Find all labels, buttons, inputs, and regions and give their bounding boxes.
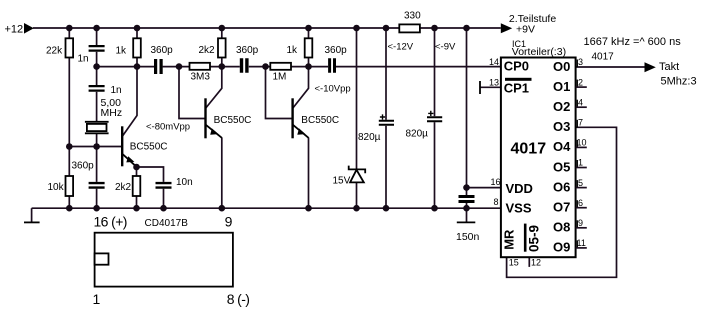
svg-text:O8: O8 [553, 220, 570, 235]
svg-text:360p: 360p [325, 45, 348, 56]
pin 11 stub O9 [576, 247, 587, 249]
svg-text:360p: 360p [151, 45, 174, 56]
op-amp IC1 4017 box [501, 58, 576, 258]
pin 2 tick O1 [576, 80, 578, 88]
wire T1 base row [69, 146, 122, 148]
pin 9 tick O8 [576, 220, 578, 228]
junction T1 base row / 22k-10k [66, 143, 73, 150]
wire 1k2 column to node [308, 58, 310, 67]
transistor Q3 BC550C [293, 98, 309, 138]
wire O0 output to Takt [576, 66, 645, 68]
capacitor 360p (T1 base to gnd) [89, 182, 105, 189]
wire signal row seg cap360p2 to 1M [249, 66, 270, 68]
svg-text:MHz: MHz [101, 107, 123, 119]
svg-text:05-9: 05-9 [526, 225, 541, 252]
pin 1 tick O5 [576, 160, 578, 168]
svg-text:O6: O6 [553, 179, 570, 194]
svg-text:Vorteiler(:3): Vorteiler(:3) [512, 46, 566, 58]
wire 10k column bottom [68, 196, 70, 208]
node CP1 terminator bar [479, 81, 481, 94]
wire T1 emitter down 2k2 [136, 167, 138, 176]
node VDD junction [463, 184, 470, 191]
junction ground rail / T2 emitter [219, 205, 226, 212]
pin 10 tick O4 [576, 140, 578, 148]
wire 150n to rail [466, 203, 468, 208]
pin 6 stub O7 [576, 207, 587, 209]
svg-text:1n: 1n [78, 54, 89, 65]
junction signal row / T2 base node [176, 63, 183, 70]
svg-text:1M: 1M [273, 72, 287, 83]
wire c1n2 to crystal [96, 92, 98, 121]
junction ground rail / T3 emitter [305, 205, 312, 212]
svg-text:2k2: 2k2 [199, 45, 216, 56]
node CP1 overbar [505, 78, 532, 81]
svg-text:9: 9 [225, 214, 233, 230]
svg-text:O5: O5 [553, 159, 570, 174]
wire crystal to base row [96, 134, 98, 147]
wire 150n ground drop [466, 208, 468, 222]
wire 820u2 column top [434, 28, 436, 116]
wire T3 collector [293, 67, 309, 108]
svg-text:<-10Vpp: <-10Vpp [315, 84, 351, 95]
svg-text:360p: 360p [236, 45, 259, 56]
pin 5 tick O6 [576, 180, 578, 188]
capacitor 360p (coupling 1-2) [154, 59, 163, 74]
resistor 330 (supply) [399, 24, 420, 32]
junction signal row / T3 base node [262, 63, 269, 70]
pin 4 tick O2 [576, 100, 578, 108]
svg-text:10k: 10k [48, 182, 65, 193]
svg-text:4017: 4017 [511, 141, 547, 158]
wire c360p4 to rail [96, 189, 98, 209]
svg-text:O3: O3 [553, 119, 570, 134]
junction top rail / 2k2 stage2 [219, 25, 226, 32]
svg-text:3M3: 3M3 [191, 72, 211, 83]
junction top rail / VDD column [463, 25, 470, 32]
IC package pin1 notch [95, 253, 109, 264]
svg-text:11: 11 [577, 238, 586, 248]
wire c1n1 top [96, 28, 98, 45]
pin 10 stub O4 [576, 146, 587, 148]
pin 9 stub O8 [576, 227, 587, 229]
svg-text:1667 kHz =^ 600 ns: 1667 kHz =^ 600 ns [584, 36, 682, 48]
wire signal row seg 3M3 to cap360p2 [210, 66, 240, 68]
wire 2k2a column to node [221, 58, 223, 67]
node O5-9 overbar (rotated) [524, 224, 527, 252]
wire bottom ground rail [32, 207, 501, 209]
svg-text:1: 1 [93, 291, 101, 307]
capacitor 1n (lower) [89, 85, 105, 92]
junction ground rail / 360p bypass [93, 205, 100, 212]
junction top rail / zener column [353, 25, 360, 32]
ground [24, 221, 40, 223]
svg-text:7: 7 [578, 118, 583, 128]
wire T2 base feed [179, 67, 206, 119]
wire 820u2 column bottom [434, 122, 436, 208]
wire T1 emitter junction right to 10n [137, 167, 164, 182]
junction ground rail / 820u2 [431, 205, 438, 212]
wire CP1 stub [480, 86, 501, 88]
wire 1k1 column bottom to node [136, 58, 138, 67]
port 2.Teilstufe +9V arrow [501, 23, 512, 33]
junction top rail / 1n column [93, 25, 100, 32]
svg-text:1k: 1k [116, 46, 128, 57]
resistor 1k (stage3 collector) [305, 38, 313, 57]
junction signal row / T1 collector node [134, 63, 141, 70]
junction ground rail / 150n [463, 205, 470, 212]
pin 11 tick O9 [576, 240, 578, 248]
capacitor 10n (emitter bypass) [156, 182, 172, 189]
wire VDD column [466, 28, 468, 195]
svg-text:820µ: 820µ [406, 128, 429, 139]
svg-text:14: 14 [489, 57, 499, 67]
port Takt arrow [645, 62, 656, 72]
pin 1 stub O5 [576, 167, 587, 169]
wire 1k1 column top [136, 28, 138, 38]
svg-text:2k2: 2k2 [115, 182, 132, 193]
resistor 1k (stage1) [133, 38, 141, 57]
svg-text:820µ: 820µ [358, 132, 381, 143]
svg-text:1n: 1n [111, 85, 122, 96]
svg-text:5Mhz:3: 5Mhz:3 [661, 75, 697, 87]
wire zener column top [356, 28, 358, 169]
wire O3 feedback to MR [507, 127, 617, 277]
wire pin12 stub [528, 257, 530, 267]
svg-text:BC550C: BC550C [130, 141, 168, 152]
capacitor 1n (upper) [89, 45, 105, 52]
svg-text:10: 10 [577, 138, 587, 148]
svg-text:2: 2 [578, 77, 583, 87]
svg-text:15V: 15V [333, 175, 351, 186]
junction signal row / T3 collector node [305, 63, 312, 70]
svg-text:Takt: Takt [659, 61, 679, 73]
wire 22k column bottom [68, 58, 70, 147]
capacitor 360p (coupling 2-3) [240, 58, 249, 72]
resistor 1M [270, 63, 291, 70]
svg-text:BC550C: BC550C [301, 115, 339, 126]
svg-text:MR: MR [502, 229, 517, 250]
junction signal row / T2 collector node [219, 63, 226, 70]
junction top rail / 1k stage1 [134, 25, 141, 32]
svg-text:4017: 4017 [592, 52, 615, 63]
svg-text:CP1: CP1 [504, 81, 529, 96]
svg-text:3: 3 [578, 57, 583, 67]
svg-text:<-80mVpp: <-80mVpp [146, 122, 190, 133]
svg-text:8 (-): 8 (-) [227, 291, 250, 307]
svg-text:+9V: +9V [516, 23, 535, 35]
wire T3 base feed [266, 67, 293, 119]
svg-text:13: 13 [489, 77, 499, 87]
junction top rail / 820u1 column [383, 25, 390, 32]
svg-text:O2: O2 [553, 99, 570, 114]
wire signal row seg cap360p1 to 3M3 [163, 66, 190, 68]
wire 820u1 column top [385, 28, 387, 120]
transistor Q2 BC550C [206, 98, 222, 138]
wire 22k column top [68, 28, 70, 38]
wire T1 collector [123, 67, 138, 136]
junction ground rail / 2k2 emitter [133, 205, 140, 212]
resistor 3M3 [190, 63, 211, 70]
junction top rail / 22k [66, 25, 73, 32]
svg-text:VDD: VDD [506, 181, 533, 196]
resistor 22k [66, 38, 74, 57]
wire VDD to IC [467, 187, 501, 189]
diode zener 15V [349, 166, 366, 183]
svg-text:O1: O1 [553, 79, 570, 94]
port +12 arrow [24, 23, 34, 34]
ground [457, 221, 476, 223]
IC package DIP16 outline [95, 233, 233, 287]
svg-text:16: 16 [491, 177, 501, 187]
wire 10n to rail [163, 189, 165, 209]
svg-text:CP0: CP0 [504, 59, 529, 74]
wire top supply rail right segment [420, 27, 501, 29]
svg-text:+12: +12 [5, 24, 24, 36]
svg-text:O0: O0 [553, 59, 570, 74]
wire signal row seg 1M to cap360p3 [291, 66, 328, 68]
svg-text:6: 6 [578, 198, 583, 208]
svg-text:150n: 150n [456, 231, 480, 243]
wire 1k2 column top [308, 28, 310, 38]
resistor 2k2 (stage2 collector) [218, 38, 226, 57]
node T1 emitter junction [133, 164, 140, 171]
junction ground rail / 10k [66, 205, 73, 212]
svg-text:22k: 22k [46, 46, 63, 57]
wire 10k column top [68, 147, 70, 177]
svg-text:VSS: VSS [506, 200, 532, 215]
capacitor 150n [459, 195, 475, 203]
junction signal row / crystal column [93, 63, 100, 70]
svg-text:5: 5 [578, 178, 583, 188]
capacitor 820u (second electrolytic) [427, 111, 442, 122]
wire T2 collector [206, 67, 222, 108]
pin 2 stub O1 [576, 86, 587, 88]
capacitor 820u (first electrolytic) [379, 114, 394, 125]
wire 2k2b to rail [136, 196, 138, 208]
junction top rail / 1k stage3 [305, 25, 312, 32]
pin 3 tick O0 [576, 60, 578, 68]
wire zener column bottom [356, 182, 358, 208]
wire base row to c360p4 [96, 147, 98, 182]
wire c1n1 to node [96, 52, 98, 67]
junction ground rail / zener [353, 205, 360, 212]
svg-text:12: 12 [531, 258, 541, 268]
wire left ground drop [31, 208, 33, 222]
crystal 5.00 MHz [85, 122, 109, 134]
svg-text:360p: 360p [72, 161, 95, 172]
svg-text:8: 8 [494, 197, 499, 207]
transistor Q1 BC550C [122, 126, 136, 167]
junction ground rail / 10n [160, 205, 167, 212]
junction T1 base row / crystal [93, 143, 100, 150]
junction top rail / 820u2 column [431, 25, 438, 32]
svg-text:<-12V: <-12V [388, 41, 414, 52]
svg-text:1k: 1k [287, 45, 299, 56]
capacitor 360p (coupling 3-IC) [328, 58, 336, 72]
wire top supply rail left segment [33, 27, 400, 29]
wire node to c1n2 [96, 67, 98, 85]
wire T2 emitter down [221, 138, 223, 209]
resistor 10k [66, 176, 74, 196]
svg-text:1: 1 [578, 158, 583, 168]
junction ground rail / 820u1 [383, 205, 390, 212]
pin 4 stub O2 [576, 106, 587, 108]
resistor 2k2 (T1 emitter) [133, 176, 141, 196]
svg-text:10n: 10n [176, 177, 193, 188]
svg-text:15: 15 [509, 258, 519, 268]
svg-text:CD4017B: CD4017B [145, 218, 189, 229]
pin 7 tick O3 [576, 120, 578, 128]
pin 6 tick O7 [576, 200, 578, 208]
svg-text:O9: O9 [553, 240, 570, 255]
svg-text:BC550C: BC550C [214, 115, 252, 126]
svg-text:<-9V: <-9V [435, 41, 456, 52]
pin 5 stub O6 [576, 187, 587, 189]
wire T3 emitter down [308, 138, 310, 209]
svg-text:330: 330 [404, 10, 421, 21]
svg-text:4: 4 [578, 97, 583, 107]
wire 2k2a column top [221, 28, 223, 38]
svg-text:9: 9 [578, 218, 583, 228]
svg-text:O4: O4 [553, 139, 571, 154]
svg-text:16 (+): 16 (+) [94, 214, 127, 230]
svg-text:O7: O7 [553, 200, 570, 215]
wire signal row seg node1k to cap360p1 [97, 66, 154, 68]
wire 820u1 column bottom [385, 126, 387, 208]
wire signal row seg cap360p3 to IC CP0 [336, 66, 501, 68]
